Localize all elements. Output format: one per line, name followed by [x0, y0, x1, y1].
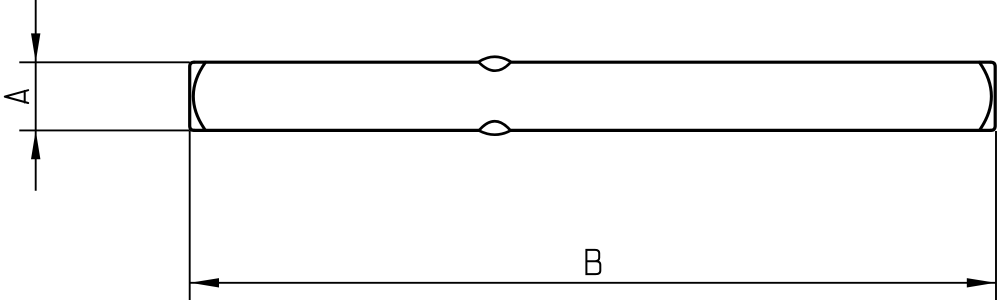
pin left end face — [190, 62, 195, 130]
pin body bottom edge — [194, 129, 991, 132]
left crown arc — [193, 62, 205, 130]
dimension A line — [35, 0, 37, 191]
pin right end face — [991, 62, 996, 130]
top groove mark — [479, 57, 512, 71]
dimension A bottom extension line — [19, 129, 189, 131]
label B — [585, 249, 600, 274]
dimension A top extension line — [19, 61, 189, 63]
right crown arc — [979, 62, 991, 130]
pin body top edge — [194, 61, 991, 64]
dimension A bottom arrowhead — [31, 130, 40, 159]
label A — [5, 90, 28, 103]
dimension B line — [190, 282, 996, 284]
dimension B right arrowhead — [967, 278, 996, 287]
dimension A top arrowhead — [31, 33, 40, 62]
dimension B right extension line — [995, 131, 997, 300]
dimension B left extension line — [189, 131, 191, 300]
dimension B left arrowhead — [190, 278, 219, 287]
bottom groove mark — [479, 121, 511, 134]
